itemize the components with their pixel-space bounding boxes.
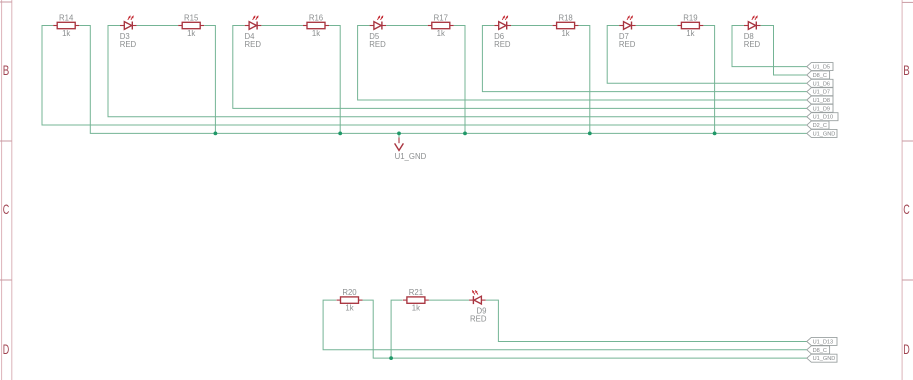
net flag U1_D13 [807,337,837,345]
svg-text:U1_D6: U1_D6 [813,81,830,87]
svg-text:RED: RED [494,40,511,49]
wire net D8_C (R20 left to flag) [323,300,807,350]
wire D7 cathode to R19 [636,25,678,27]
wire net U1_D13 (D9 anode to flag) [486,300,807,341]
wire net U1_D10 (LED D3 anode) [108,26,807,117]
wire D5 cathode to R17 [386,25,428,27]
svg-text:R17: R17 [434,13,448,22]
svg-text:U1_D5: U1_D5 [813,65,830,71]
svg-text:1k: 1k [312,29,320,38]
net flag D8_C [807,71,830,79]
svg-text:B: B [903,62,910,78]
svg-text:U1_D8: U1_D8 [813,98,830,104]
wire net U1_D5 (LED D8 anode) [732,26,807,67]
net flag U1_D7 [807,88,833,96]
svg-text:C: C [3,201,10,217]
svg-text:1k: 1k [345,304,353,313]
wire R18 to GND bus [579,26,590,134]
LED D5 RED [369,16,386,49]
wire net U1_D8 (LED D5 anode) [358,26,807,101]
LED D7 RED [619,16,636,49]
svg-text:R19: R19 [683,13,697,22]
wire net D8_C (D8 cathode to flag) [761,26,807,75]
wire R21 left to GND bus [391,300,403,358]
net flag D2_C [807,121,829,129]
svg-text:R21: R21 [409,288,423,297]
resistor R19 1k [677,13,703,38]
svg-text:RED: RED [369,40,386,49]
svg-text:1k: 1k [412,304,420,313]
svg-text:1k: 1k [62,29,70,38]
wire R19 to GND bus [703,26,714,134]
svg-text:U1_D7: U1_D7 [813,90,830,96]
net flag U1_D9 [807,104,833,112]
wire D3 cathode to R15 [137,25,179,27]
wire R16 to GND bus [329,26,340,134]
wire net U1_D7 (LED D6 anode) [482,26,806,92]
junction R15/GND [214,132,218,136]
net flag U1_D8 [807,96,833,104]
svg-text:RED: RED [245,40,262,49]
wire net D2_C (R14 left to flag) [42,26,807,126]
svg-text:R18: R18 [558,13,572,22]
wire R21 to D9 cathode [429,299,469,301]
wire net U1_GND (R20 right, bottom GND bus to flag) [363,300,807,358]
svg-text:U1_GND: U1_GND [813,131,836,137]
svg-text:D: D [903,341,910,357]
power symbol U1_GND [395,133,427,160]
wire R17 to GND bus [454,26,465,134]
resistor R20 1k [337,288,363,313]
resistor R14 1k [53,13,79,38]
svg-text:D8_C: D8_C [813,73,827,79]
svg-text:R14: R14 [59,13,74,22]
LED D3 RED [120,16,137,49]
svg-text:U1_D13: U1_D13 [813,339,834,345]
svg-text:R20: R20 [342,288,357,297]
LED D4 RED [245,16,262,49]
svg-text:B: B [3,62,10,78]
resistor R21 1k [403,288,429,313]
resistor R18 1k [553,13,579,38]
svg-text:1k: 1k [437,29,445,38]
wire net U1_D6 (LED D7 anode) [607,26,807,84]
junction R19/GND [713,132,717,136]
net flag U1_GND [807,129,837,137]
junction R21/GND [389,356,393,360]
svg-text:U1_D9: U1_D9 [813,106,830,112]
svg-text:RED: RED [619,40,636,49]
wire R15 to GND bus [204,26,215,134]
svg-text:D2_C: D2_C [813,123,827,129]
net flag U1_GND [807,354,837,362]
net flag U1_D5 [807,63,833,71]
wire net U1_GND (R14 right, GND bus to flag) [79,26,807,134]
junction R16/GND [338,132,342,136]
svg-text:RED: RED [470,315,487,324]
svg-text:U1_D10: U1_D10 [813,115,834,121]
svg-text:D8_C: D8_C [813,348,827,354]
net flag U1_D10 [807,113,838,121]
svg-text:U1_GND: U1_GND [813,356,836,362]
net flag D8_C [807,346,830,354]
junction R17/GND [463,132,467,136]
svg-text:R16: R16 [309,13,323,22]
junction R18/GND [588,132,592,136]
svg-text:U1_GND: U1_GND [395,152,427,161]
sheet frame left column [0,0,12,380]
resistor R16 1k [303,13,329,38]
resistor R17 1k [428,13,454,38]
svg-text:D: D [3,341,10,357]
sheet frame right column [902,0,913,380]
svg-text:C: C [903,201,910,217]
svg-text:RED: RED [744,40,761,49]
svg-text:1k: 1k [686,29,694,38]
svg-text:R15: R15 [184,13,199,22]
svg-text:RED: RED [120,40,137,49]
LED D9 RED (mirrored) [469,290,487,323]
net flag U1_D6 [807,79,833,87]
svg-text:1k: 1k [561,29,569,38]
LED D6 RED [494,16,511,49]
wire D4 cathode to R16 [261,25,303,27]
wire net U1_D9 (LED D4 anode) [233,26,807,109]
resistor R15 1k [178,13,204,38]
junction U1_GND symbol [397,132,401,136]
svg-text:1k: 1k [187,29,195,38]
wire D6 cathode to R18 [511,25,553,27]
LED D8 RED [744,16,761,49]
